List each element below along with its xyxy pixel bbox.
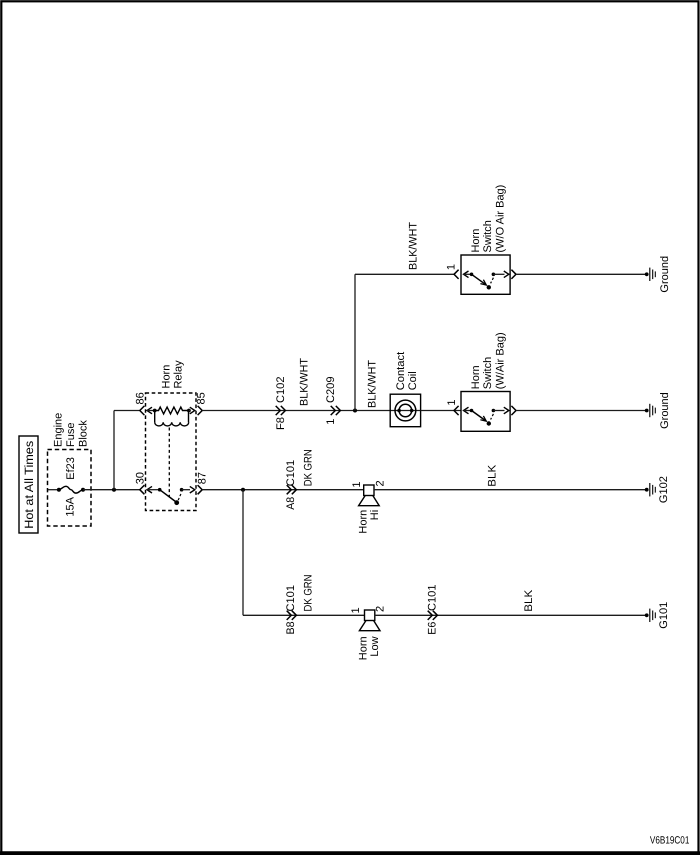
- svg-text:BLK/WHT: BLK/WHT: [299, 358, 311, 406]
- svg-text:G102: G102: [658, 476, 670, 503]
- svg-text:Engine: Engine: [53, 413, 65, 447]
- wire to G102: [374, 489, 647, 491]
- ground (W/O branch): [645, 272, 649, 276]
- svg-text:DK GRN: DK GRN: [303, 574, 315, 611]
- svg-text:V6B19C01: V6B19C01: [650, 835, 690, 847]
- svg-text:Horn: Horn: [358, 510, 370, 534]
- svg-text:C101: C101: [285, 460, 297, 487]
- connector C209 pin 1: [331, 406, 336, 415]
- svg-text:30: 30: [135, 472, 147, 484]
- svg-text:1: 1: [350, 607, 362, 613]
- svg-text:85: 85: [196, 392, 208, 404]
- svg-text:DK GRN: DK GRN: [303, 449, 315, 486]
- branch wire down to horn low: [242, 490, 244, 616]
- Horn Relay (dashed box): [146, 393, 197, 511]
- svg-text:15A: 15A: [65, 496, 77, 516]
- junction node riser to horn switch W/O: [353, 409, 357, 413]
- svg-text:Hi: Hi: [369, 510, 381, 520]
- svg-text:Switch: Switch: [482, 357, 494, 389]
- wire to connector E6: [375, 614, 647, 616]
- ground G102: [645, 488, 649, 492]
- svg-text:Ef23: Ef23: [65, 457, 77, 480]
- wire to Ground: [516, 273, 647, 275]
- label box: Hot at All Times: [19, 436, 38, 533]
- svg-text:C209: C209: [325, 377, 337, 404]
- connector C101 pin A8: [287, 485, 292, 494]
- wire fuse to relay pin 30: [83, 489, 140, 491]
- svg-text:Fuse: Fuse: [65, 423, 77, 447]
- fuse Ef23 15A: [57, 488, 61, 492]
- svg-text:BLK/WHT: BLK/WHT: [408, 222, 420, 270]
- svg-text:1: 1: [446, 399, 458, 405]
- junction node to Horn Low branch: [241, 488, 245, 492]
- svg-text:B8: B8: [285, 622, 297, 635]
- wire into fuse: [48, 489, 59, 491]
- wire coil to horn switch W/Air: [421, 410, 461, 412]
- svg-text:2: 2: [375, 480, 387, 486]
- svg-text:Ground: Ground: [659, 256, 671, 293]
- relay plunger dashed link: [168, 428, 170, 497]
- svg-text:Block: Block: [78, 420, 90, 447]
- ground (coil circuit): [645, 409, 649, 413]
- svg-text:Hot at All Times: Hot at All Times: [22, 441, 36, 529]
- riser wire BLK/WHT: [354, 274, 356, 410]
- svg-text:(W/O Air Bag): (W/O Air Bag): [494, 185, 506, 253]
- connector C101 pin E6: [428, 611, 433, 620]
- svg-text:C102: C102: [275, 377, 287, 404]
- svg-text:Contact: Contact: [395, 352, 407, 391]
- relay coil (resistor + inductor): [153, 409, 157, 413]
- ground G101: [645, 613, 649, 617]
- svg-text:F8: F8: [275, 417, 287, 430]
- wire up-left to relay pin 86: [113, 411, 115, 490]
- svg-text:E6: E6: [427, 622, 439, 635]
- svg-text:C101: C101: [285, 585, 297, 612]
- svg-text:Horn: Horn: [470, 365, 482, 389]
- svg-text:BLK/WHT: BLK/WHT: [367, 360, 379, 408]
- svg-text:2: 2: [375, 606, 387, 612]
- contact coil: [390, 410, 420, 412]
- wire pin 85 to contact coil: [202, 410, 390, 412]
- junction node (fuse output / relay feed): [112, 488, 116, 492]
- svg-text:C101: C101: [427, 585, 439, 612]
- svg-text:1: 1: [325, 419, 337, 425]
- svg-text:Horn: Horn: [160, 365, 172, 389]
- svg-text:Relay: Relay: [172, 360, 184, 389]
- relay switch contacts: [158, 488, 162, 492]
- wire pin 87 to junction: [202, 489, 364, 491]
- svg-text:Ground: Ground: [659, 392, 671, 429]
- connector C102 pin F8: [276, 406, 281, 415]
- svg-text:BLK: BLK: [523, 589, 535, 612]
- svg-text:87: 87: [197, 472, 209, 484]
- svg-text:A8: A8: [285, 497, 297, 510]
- Engine Fuse Block (dashed box): [48, 450, 92, 527]
- connector C101 pin B8: [287, 611, 292, 620]
- svg-text:Low: Low: [369, 636, 381, 656]
- svg-text:1: 1: [446, 264, 458, 270]
- svg-text:Horn: Horn: [358, 636, 370, 660]
- svg-text:Coil: Coil: [407, 371, 419, 390]
- svg-text:G101: G101: [658, 602, 670, 629]
- wire to Ground: [516, 410, 647, 412]
- svg-text:(W/Air Bag): (W/Air Bag): [494, 332, 506, 389]
- svg-text:Horn: Horn: [470, 229, 482, 253]
- svg-text:86: 86: [134, 392, 146, 404]
- svg-text:BLK: BLK: [486, 464, 498, 487]
- svg-text:1: 1: [351, 481, 363, 487]
- svg-text:Switch: Switch: [482, 220, 494, 252]
